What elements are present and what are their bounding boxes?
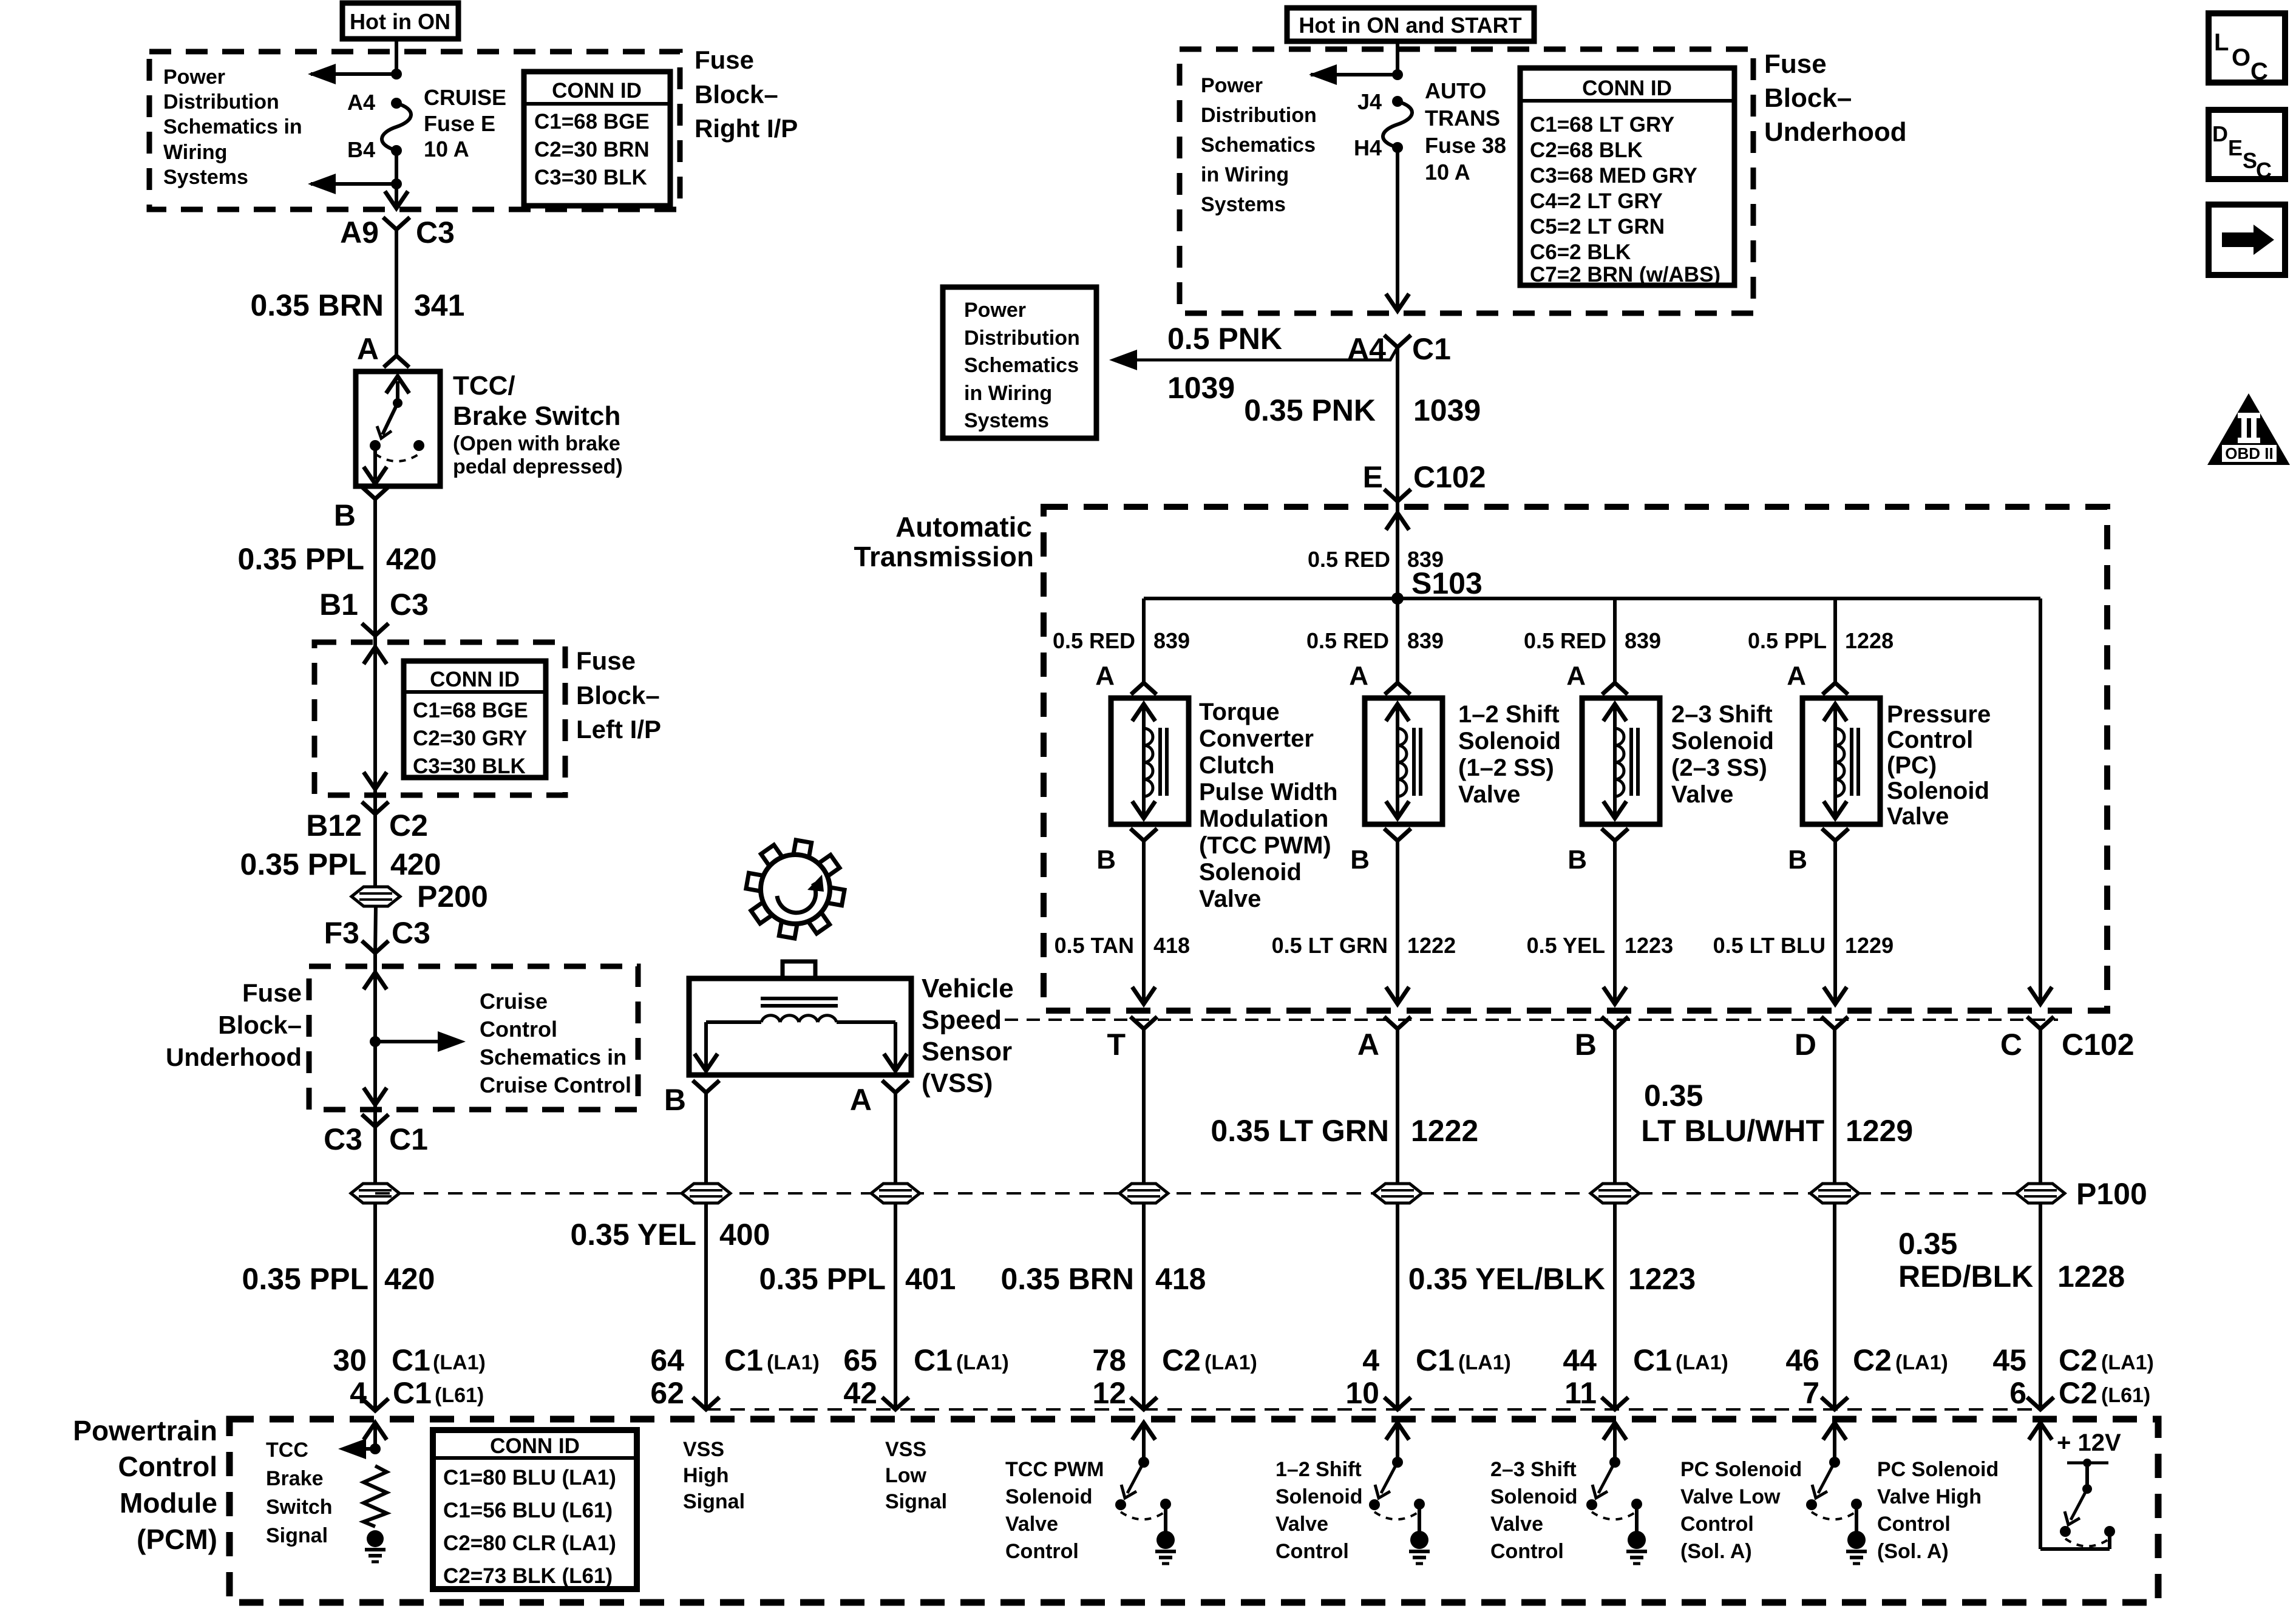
svg-text:Speed: Speed bbox=[922, 1005, 1002, 1035]
brake switch contacts bbox=[364, 376, 424, 484]
svg-text:11: 11 bbox=[1564, 1376, 1597, 1410]
connector into PCM bbox=[1601, 1397, 1628, 1409]
svg-text:Systems: Systems bbox=[964, 409, 1049, 432]
svg-text:6: 6 bbox=[2009, 1376, 2026, 1410]
svg-text:Control: Control bbox=[1490, 1540, 1564, 1563]
svg-text:Pulse Width: Pulse Width bbox=[1199, 779, 1338, 805]
wire drop to 1-2 shift solenoid valve bbox=[1396, 598, 1399, 683]
svg-text:Control: Control bbox=[1877, 1513, 1951, 1536]
svg-text:1228: 1228 bbox=[2057, 1259, 2125, 1293]
label 0.35 LT BLU/WHT 1229 bbox=[1641, 1079, 1913, 1148]
svg-text:0.35 LT GRN: 0.35 LT GRN bbox=[1211, 1114, 1389, 1148]
pin A of 2-3 shift solenoid valve bbox=[1566, 661, 1628, 694]
fuse CRUISE Fuse E 10 A bbox=[382, 98, 411, 156]
wire 420 upper bbox=[373, 499, 377, 636]
wire 420 middle bbox=[373, 814, 377, 887]
pin 30 C1 (LA1) bbox=[333, 1343, 486, 1377]
svg-text:Automatic: Automatic bbox=[895, 511, 1032, 543]
svg-text:VSS: VSS bbox=[683, 1438, 724, 1461]
label Automatic Transmission bbox=[854, 511, 1034, 572]
CONN ID table right IP bbox=[524, 72, 670, 206]
wire drop to PC solenoid valve bbox=[1833, 598, 1837, 683]
grommet P100 bbox=[2016, 1184, 2065, 1203]
svg-text:Fuse: Fuse bbox=[1764, 49, 1827, 79]
svg-text:Brake: Brake bbox=[266, 1467, 324, 1490]
label 1-2 Shift Solenoid (1-2 SS) Valve bbox=[1458, 701, 1561, 808]
label 0.35 LT GRN 1222 bbox=[1211, 1114, 1478, 1148]
VSS pickup coil bbox=[695, 998, 907, 1071]
svg-text:(1–2 SS): (1–2 SS) bbox=[1458, 754, 1554, 781]
svg-text:0.35 PPL: 0.35 PPL bbox=[759, 1262, 886, 1296]
svg-text:in Wiring: in Wiring bbox=[964, 382, 1052, 405]
svg-text:Distribution: Distribution bbox=[163, 90, 279, 114]
svg-text:0.5 LT GRN: 0.5 LT GRN bbox=[1272, 933, 1388, 958]
dashed box Fuse Block-Left I/P bbox=[314, 642, 565, 795]
wire from Hot in ON into fuse block bbox=[395, 39, 398, 74]
pin A of PC solenoid valve bbox=[1787, 661, 1848, 694]
wire from pin B of TCC PWM solenoid valve bbox=[1132, 841, 1155, 1004]
svg-text:Valve: Valve bbox=[1671, 781, 1733, 808]
label 1-2 Shift Solenoid Valve Control bbox=[1275, 1458, 1363, 1563]
svg-text:B4: B4 bbox=[347, 137, 375, 162]
svg-text:44: 44 bbox=[1563, 1343, 1597, 1377]
svg-text:Cruise Control: Cruise Control bbox=[480, 1073, 631, 1097]
svg-text:in Wiring: in Wiring bbox=[1201, 163, 1289, 186]
label 0.5 TAN 418 bbox=[1055, 933, 1190, 958]
PC solenoid valve high control +12V switch bbox=[2029, 1423, 2115, 1549]
wire from pin B of 1-2 shift solenoid valve bbox=[1386, 841, 1409, 1004]
svg-text:Control: Control bbox=[480, 1017, 557, 1042]
connector at brake switch bbox=[384, 356, 409, 367]
label 0.35 BRN 418 bbox=[1000, 1262, 1206, 1296]
svg-text:C1: C1 bbox=[392, 1343, 430, 1377]
CONN ID table left IP bbox=[404, 661, 546, 778]
svg-text:Clutch: Clutch bbox=[1199, 752, 1274, 779]
wire drop to TCC PWM solenoid valve bbox=[1142, 598, 1146, 683]
pin B of 1-2 shift solenoid valve bbox=[1350, 829, 1411, 875]
pin 12 bbox=[1092, 1376, 1126, 1410]
svg-text:H4: H4 bbox=[1354, 135, 1382, 160]
svg-text:(TCC PWM): (TCC PWM) bbox=[1199, 832, 1331, 859]
svg-text:Fuse 38: Fuse 38 bbox=[1425, 133, 1506, 158]
pin 45 C2 (LA1) bbox=[1992, 1343, 2154, 1377]
svg-text:C3=30 BLK: C3=30 BLK bbox=[413, 754, 526, 778]
connector E C102 bbox=[1363, 460, 1486, 501]
svg-text:C1: C1 bbox=[393, 1376, 432, 1410]
svg-text:Left I/P: Left I/P bbox=[576, 715, 661, 744]
label 0.5 PNK bbox=[1167, 322, 1282, 356]
svg-text:Valve: Valve bbox=[1005, 1513, 1058, 1536]
svg-text:Converter: Converter bbox=[1199, 725, 1314, 752]
label C102 bbox=[2062, 1028, 2135, 1062]
svg-text:420: 420 bbox=[390, 847, 441, 881]
label +12V bbox=[2057, 1429, 2121, 1456]
pin 42 bbox=[843, 1376, 877, 1410]
svg-text:Low: Low bbox=[885, 1464, 927, 1487]
label 0.5 RED 839 bbox=[1306, 628, 1444, 653]
svg-text:B12: B12 bbox=[306, 808, 362, 842]
label AUTO TRANS Fuse 38 10 A bbox=[1425, 78, 1506, 185]
svg-text:Schematics: Schematics bbox=[964, 354, 1079, 377]
TCC brake switch signal input arrow and resistor bbox=[338, 1423, 387, 1562]
svg-text:C1=68 LT GRY: C1=68 LT GRY bbox=[1530, 113, 1674, 137]
svg-text:65: 65 bbox=[843, 1343, 877, 1377]
svg-text:Valve: Valve bbox=[1490, 1513, 1543, 1536]
svg-text:1228: 1228 bbox=[1845, 628, 1894, 653]
svg-text:1222: 1222 bbox=[1407, 933, 1456, 958]
svg-text:(PC): (PC) bbox=[1887, 752, 1937, 779]
pin A of brake switch bbox=[357, 332, 379, 366]
svg-text:Valve: Valve bbox=[1199, 886, 1261, 912]
svg-text:A: A bbox=[1349, 661, 1368, 691]
svg-text:Control: Control bbox=[1275, 1540, 1349, 1563]
label 0.5 RED 839 bbox=[1524, 628, 1661, 653]
CONN ID table PCM bbox=[433, 1430, 637, 1589]
label Fuse Block-Right I/P bbox=[695, 46, 798, 143]
svg-text:PC Solenoid: PC Solenoid bbox=[1680, 1458, 1802, 1481]
connector B1 C3 bbox=[319, 588, 429, 636]
label 0.5 RED 839 bbox=[1053, 628, 1190, 653]
svg-text:10 A: 10 A bbox=[424, 137, 469, 161]
svg-text:Signal: Signal bbox=[683, 1490, 745, 1513]
pin A of TCC PWM solenoid valve bbox=[1095, 661, 1156, 694]
svg-text:A: A bbox=[1566, 661, 1586, 691]
svg-text:(VSS): (VSS) bbox=[922, 1068, 993, 1098]
svg-text:A: A bbox=[1095, 661, 1115, 691]
svg-text:Systems: Systems bbox=[1201, 193, 1286, 216]
svg-text:Sensor: Sensor bbox=[922, 1037, 1012, 1066]
svg-text:Distribution: Distribution bbox=[964, 327, 1080, 350]
svg-text:0.5 TAN: 0.5 TAN bbox=[1055, 933, 1134, 958]
svg-text:Signal: Signal bbox=[266, 1524, 328, 1547]
svg-text:0.35 PNK: 0.35 PNK bbox=[1244, 393, 1376, 427]
svg-text:Solenoid: Solenoid bbox=[1275, 1485, 1363, 1508]
text Power Distribution Schematics in Wiring Systems (underhood) bbox=[1201, 74, 1317, 216]
svg-text:Block–: Block– bbox=[218, 1011, 302, 1039]
svg-text:O: O bbox=[2232, 44, 2250, 71]
wire with arrow to underhood edge bbox=[1386, 147, 1409, 311]
svg-text:0.5 PPL: 0.5 PPL bbox=[1748, 628, 1827, 653]
svg-text:Block–: Block– bbox=[1764, 83, 1852, 113]
svg-text:Pressure: Pressure bbox=[1887, 701, 1991, 728]
svg-text:0.5 RED: 0.5 RED bbox=[1053, 628, 1135, 653]
svg-text:C2: C2 bbox=[2059, 1343, 2097, 1377]
power label box Hot in ON bbox=[342, 3, 458, 39]
svg-text:4: 4 bbox=[1362, 1343, 1379, 1377]
svg-text:C3: C3 bbox=[416, 215, 455, 249]
grommet P100 bbox=[1810, 1184, 1859, 1203]
pin 11 bbox=[1564, 1376, 1597, 1410]
svg-text:CONN ID: CONN ID bbox=[430, 668, 520, 691]
svg-text:Wiring: Wiring bbox=[163, 141, 227, 164]
svg-text:C1=56 BLU (L61): C1=56 BLU (L61) bbox=[443, 1499, 613, 1522]
svg-text:418: 418 bbox=[1153, 933, 1190, 958]
svg-text:0.35: 0.35 bbox=[1898, 1227, 1957, 1261]
pin B4 bbox=[347, 137, 375, 162]
svg-text:B: B bbox=[1350, 845, 1370, 875]
svg-text:(LA1): (LA1) bbox=[767, 1351, 820, 1374]
dashed box Automatic Transmission bbox=[1044, 507, 2107, 1011]
branch arrow to power distribution (underhood) bbox=[1309, 64, 1403, 85]
svg-text:0.35 PPL: 0.35 PPL bbox=[240, 847, 367, 881]
dashed box Fuse Block-Underhood (right) bbox=[1180, 49, 1753, 313]
svg-text:C2=80 CLR (LA1): C2=80 CLR (LA1) bbox=[443, 1531, 616, 1555]
wire 341 bbox=[395, 229, 398, 356]
pin 4 C1 (LA1) bbox=[1362, 1343, 1511, 1377]
fuse AUTO TRANS Fuse 38 10 A bbox=[1383, 96, 1412, 153]
svg-text:TRANS: TRANS bbox=[1425, 106, 1500, 131]
svg-text:J4: J4 bbox=[1357, 89, 1382, 114]
svg-text:0.35 PPL: 0.35 PPL bbox=[242, 1262, 369, 1296]
icon OBD II triangle bbox=[2207, 393, 2290, 465]
pin T of C102 bbox=[1107, 1017, 1157, 1062]
svg-text:Right I/P: Right I/P bbox=[695, 114, 798, 143]
svg-text:Fuse: Fuse bbox=[242, 978, 302, 1007]
svg-text:1222: 1222 bbox=[1411, 1114, 1478, 1148]
svg-text:46: 46 bbox=[1785, 1343, 1819, 1377]
svg-text:(LA1): (LA1) bbox=[956, 1351, 1009, 1374]
svg-text:Fuse: Fuse bbox=[576, 646, 636, 675]
wire 0.35 PNK 1039 bbox=[1396, 347, 1399, 501]
branch arrow to cruise control schematics bbox=[370, 1031, 466, 1052]
connector A9 C3 bbox=[340, 215, 455, 249]
svg-text:Signal: Signal bbox=[885, 1490, 947, 1513]
svg-text:(L61): (L61) bbox=[435, 1384, 484, 1407]
wire into transmission with arrow bbox=[1386, 501, 1409, 598]
label Fuse Block-Underhood (right) bbox=[1764, 49, 1907, 147]
svg-text:C3=30 BLK: C3=30 BLK bbox=[534, 166, 647, 189]
svg-text:C3: C3 bbox=[324, 1122, 362, 1156]
svg-text:A: A bbox=[850, 1083, 872, 1117]
grommet P100 bbox=[682, 1184, 730, 1203]
svg-text:C: C bbox=[2256, 158, 2272, 183]
connector into PCM bbox=[882, 1397, 909, 1409]
svg-text:VSS: VSS bbox=[885, 1438, 926, 1461]
svg-text:C2: C2 bbox=[1162, 1343, 1201, 1377]
text Power Distribution Schematics in Wiring Systems (right IP) bbox=[163, 66, 302, 189]
svg-text:0.35 YEL/BLK: 0.35 YEL/BLK bbox=[1408, 1262, 1605, 1296]
svg-text:TCC PWM: TCC PWM bbox=[1005, 1458, 1104, 1481]
svg-text:A: A bbox=[357, 332, 379, 366]
svg-text:0.5 RED: 0.5 RED bbox=[1524, 628, 1606, 653]
label VSS Low Signal bbox=[885, 1438, 947, 1513]
svg-text:C3=68 MED GRY: C3=68 MED GRY bbox=[1530, 164, 1697, 188]
svg-text:420: 420 bbox=[384, 1262, 435, 1296]
svg-text:418: 418 bbox=[1155, 1262, 1206, 1296]
svg-text:Valve: Valve bbox=[1275, 1513, 1328, 1536]
svg-text:D: D bbox=[1795, 1028, 1816, 1062]
svg-text:839: 839 bbox=[1407, 628, 1444, 653]
svg-text:E: E bbox=[1363, 460, 1383, 494]
TCC PWM solenoid valve control switch with ground bbox=[1115, 1423, 1176, 1564]
svg-text:78: 78 bbox=[1092, 1343, 1126, 1377]
TCC/Brake Switch box bbox=[356, 371, 440, 486]
svg-text:Block–: Block– bbox=[695, 80, 778, 109]
svg-text:Control: Control bbox=[1887, 727, 1973, 753]
svg-text:(L61): (L61) bbox=[2101, 1384, 2150, 1407]
svg-text:Fuse: Fuse bbox=[695, 46, 754, 74]
pin 6 bbox=[2009, 1376, 2150, 1410]
svg-text:C1: C1 bbox=[1633, 1343, 1672, 1377]
svg-text:1229: 1229 bbox=[1846, 1114, 1913, 1148]
wire with arrow to fuse block edge bbox=[385, 184, 408, 208]
svg-text:Schematics: Schematics bbox=[1201, 134, 1316, 157]
svg-text:A4: A4 bbox=[347, 90, 375, 115]
label CRUISE Fuse E 10 A bbox=[424, 85, 506, 161]
svg-text:30: 30 bbox=[333, 1343, 367, 1377]
svg-text:D: D bbox=[2212, 121, 2228, 146]
svg-text:C2=30 BRN: C2=30 BRN bbox=[534, 138, 650, 161]
PC solenoid valve low control switch with ground bbox=[1806, 1423, 1867, 1564]
svg-text:C102: C102 bbox=[2062, 1028, 2135, 1062]
wire PC high control to PCM bbox=[2039, 1029, 2042, 1409]
wire from Hot in ON and START bbox=[1396, 41, 1399, 75]
svg-text:Block–: Block– bbox=[576, 681, 660, 710]
svg-text:C3: C3 bbox=[392, 916, 430, 950]
dashed box Fuse Block-Right I/P bbox=[149, 52, 680, 209]
wire 2-3 shift control to PCM bbox=[1613, 1029, 1617, 1409]
pin H4 bbox=[1354, 135, 1382, 160]
svg-text:401: 401 bbox=[905, 1262, 956, 1296]
Vehicle Speed Sensor box bbox=[689, 978, 911, 1075]
icon arrow box bbox=[2209, 205, 2285, 275]
svg-text:1039: 1039 bbox=[1167, 371, 1235, 405]
svg-text:B: B bbox=[664, 1083, 686, 1117]
svg-text:C: C bbox=[2250, 58, 2268, 85]
connector into PCM bbox=[693, 1397, 719, 1409]
svg-text:839: 839 bbox=[1625, 628, 1661, 653]
svg-text:RED/BLK: RED/BLK bbox=[1898, 1259, 2033, 1293]
dashed box Fuse Block-Underhood (left) bbox=[309, 966, 638, 1110]
svg-text:0.5 LT BLU: 0.5 LT BLU bbox=[1713, 933, 1826, 958]
svg-text:1–2 Shift: 1–2 Shift bbox=[1458, 701, 1560, 728]
svg-text:62: 62 bbox=[650, 1376, 684, 1410]
label Vehicle Speed Sensor (VSS) bbox=[922, 974, 1014, 1098]
svg-text:Power: Power bbox=[163, 66, 225, 89]
svg-text:0.5 RED: 0.5 RED bbox=[1306, 628, 1389, 653]
svg-text:Modulation: Modulation bbox=[1199, 805, 1328, 832]
1-2 shift solenoid valve control switch with ground bbox=[1369, 1423, 1430, 1564]
pin B of 2-3 shift solenoid valve bbox=[1567, 829, 1628, 875]
pin C of C102 bbox=[2000, 1017, 2054, 1062]
icon LOC box bbox=[2209, 13, 2285, 85]
VSS sensor nub bbox=[783, 961, 815, 978]
svg-text:A: A bbox=[1357, 1028, 1379, 1062]
svg-text:(Open with brake: (Open with brake bbox=[453, 432, 620, 455]
label 0.35 PPL 420 (lower) bbox=[242, 1262, 435, 1296]
pin A of VSS bbox=[850, 1080, 909, 1117]
svg-text:Valve: Valve bbox=[1458, 781, 1520, 808]
svg-text:(LA1): (LA1) bbox=[2101, 1351, 2154, 1374]
label 0.5 PPL 1228 bbox=[1748, 628, 1894, 653]
pin 78 C2 (LA1) bbox=[1092, 1343, 1257, 1377]
pin 65 C1 (LA1) bbox=[843, 1343, 1009, 1377]
svg-text:C: C bbox=[2000, 1028, 2022, 1062]
svg-text:2–3 Shift: 2–3 Shift bbox=[1490, 1458, 1577, 1481]
label 0.35 PPL 420 (middle) bbox=[240, 847, 441, 881]
label 0.5 RED 839 (feed) bbox=[1308, 547, 1444, 572]
svg-text:12: 12 bbox=[1092, 1376, 1126, 1410]
pin 64 C1 (LA1) bbox=[650, 1343, 820, 1377]
pin B of C102 bbox=[1575, 1017, 1628, 1062]
svg-text:Solenoid: Solenoid bbox=[1005, 1485, 1093, 1508]
svg-text:B: B bbox=[1575, 1028, 1597, 1062]
svg-text:Valve: Valve bbox=[1887, 803, 1949, 830]
svg-text:A: A bbox=[1787, 661, 1806, 691]
label 0.5 LT GRN 1222 bbox=[1272, 933, 1456, 958]
svg-text:Solenoid: Solenoid bbox=[1887, 778, 1989, 804]
svg-text:0.5 RED: 0.5 RED bbox=[1308, 547, 1390, 572]
wire from pin B of 2-3 shift solenoid valve bbox=[1603, 841, 1626, 1004]
svg-text:C2=30 GRY: C2=30 GRY bbox=[413, 727, 527, 750]
svg-text:LT BLU/WHT: LT BLU/WHT bbox=[1641, 1114, 1824, 1148]
branch arrow to power distribution (top) bbox=[308, 64, 402, 84]
svg-text:B: B bbox=[1788, 845, 1807, 875]
pass-through grommet P200 bbox=[352, 880, 488, 914]
svg-text:Schematics in: Schematics in bbox=[163, 115, 302, 138]
label 0.35 PPL 420 (upper) bbox=[238, 542, 437, 576]
label Torque Converter Clutch Pulse Width Modulation (TCC PWM) Solenoid Valve bbox=[1199, 699, 1338, 912]
branch arrow to power distribution (bottom) bbox=[308, 151, 402, 194]
svg-text:S103: S103 bbox=[1411, 566, 1483, 600]
svg-text:1229: 1229 bbox=[1845, 933, 1894, 958]
pin B of brake switch bbox=[334, 487, 389, 532]
icon DESC box bbox=[2209, 110, 2285, 183]
svg-text:Valve Low: Valve Low bbox=[1680, 1485, 1781, 1508]
PCM connector dashed line bbox=[706, 1408, 2040, 1411]
solid box Power Distribution Schematics (PNK) bbox=[943, 287, 1096, 438]
label 0.35 YEL 400 bbox=[570, 1218, 770, 1252]
VSS low signal wire bbox=[894, 1093, 897, 1409]
label 1039 (branch) bbox=[1167, 371, 1235, 405]
label PC Solenoid Valve Low Control (Sol. A) bbox=[1680, 1458, 1802, 1563]
svg-text:(PCM): (PCM) bbox=[137, 1524, 217, 1555]
svg-text:C6=2 BLK: C6=2 BLK bbox=[1530, 240, 1631, 264]
svg-text:C2: C2 bbox=[2059, 1376, 2097, 1410]
label 0.35 BRN 341 bbox=[250, 288, 464, 322]
svg-text:E: E bbox=[2228, 135, 2243, 160]
label 0.35 RED/BLK 1228 bbox=[1898, 1227, 2125, 1293]
svg-text:C1: C1 bbox=[1416, 1343, 1455, 1377]
svg-text:C2=68 BLK: C2=68 BLK bbox=[1530, 138, 1643, 162]
pin 7 bbox=[1802, 1376, 1819, 1410]
svg-text:(LA1): (LA1) bbox=[1458, 1351, 1511, 1374]
label Pressure Control (PC) Solenoid Valve bbox=[1887, 701, 1991, 830]
svg-text:Fuse E: Fuse E bbox=[424, 111, 495, 136]
svg-text:Hot in ON and START: Hot in ON and START bbox=[1299, 13, 1521, 38]
svg-text:Hot in ON: Hot in ON bbox=[350, 9, 450, 34]
grommet P100 on left wire bbox=[351, 1184, 399, 1203]
svg-text:C1: C1 bbox=[724, 1343, 763, 1377]
pin 4 C1 (L61) bbox=[350, 1376, 484, 1410]
svg-text:C1=68 BGE: C1=68 BGE bbox=[534, 110, 650, 134]
wire 420 lower to PCM bbox=[373, 1127, 377, 1411]
label 0.35 YEL/BLK 1223 bbox=[1408, 1262, 1696, 1296]
connector into PCM (left wire) bbox=[362, 1398, 389, 1411]
svg-text:0.35 PPL: 0.35 PPL bbox=[238, 542, 364, 576]
svg-text:45: 45 bbox=[1992, 1343, 2026, 1377]
svg-text:Power: Power bbox=[1201, 74, 1263, 97]
label 0.5 LT BLU 1229 bbox=[1713, 933, 1894, 958]
svg-text:CONN ID: CONN ID bbox=[490, 1434, 580, 1458]
solenoid 2-3 shift solenoid valve bbox=[1582, 698, 1660, 824]
svg-text:0.5 YEL: 0.5 YEL bbox=[1527, 933, 1605, 958]
svg-text:C4=2 LT GRY: C4=2 LT GRY bbox=[1530, 189, 1663, 213]
svg-text:CRUISE: CRUISE bbox=[424, 85, 506, 110]
svg-text:7: 7 bbox=[1802, 1376, 1819, 1410]
svg-text:PC Solenoid: PC Solenoid bbox=[1877, 1458, 1999, 1481]
svg-text:Solenoid: Solenoid bbox=[1458, 728, 1561, 754]
